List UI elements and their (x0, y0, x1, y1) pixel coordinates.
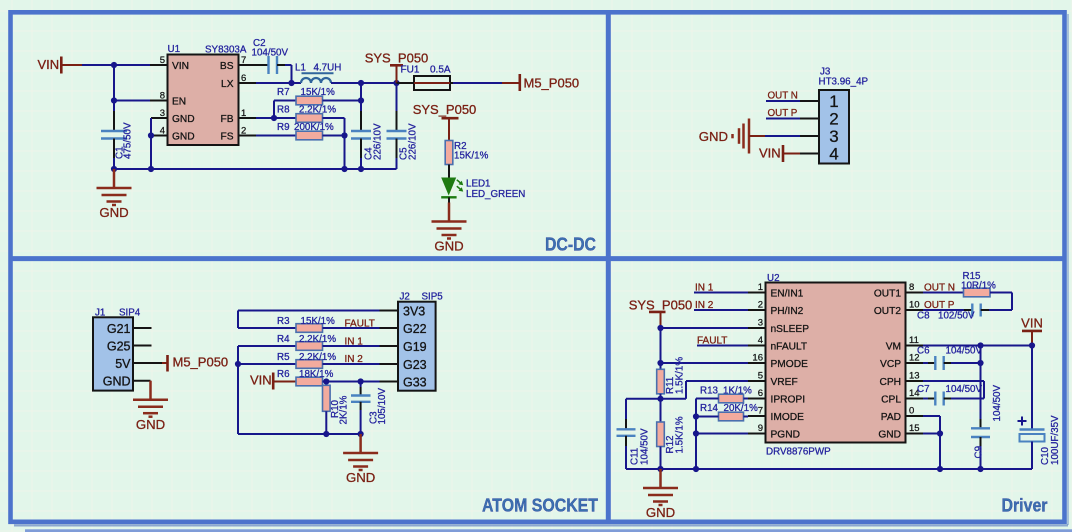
svg-text:GND: GND (172, 132, 195, 143)
svg-text:4: 4 (160, 126, 165, 137)
svg-text:15K/1%: 15K/1% (301, 316, 336, 327)
svg-text:9: 9 (758, 423, 763, 434)
svg-text:VIN: VIN (172, 61, 189, 72)
svg-text:IN 1: IN 1 (695, 283, 714, 294)
svg-text:1: 1 (241, 108, 246, 119)
svg-text:104/50V: 104/50V (946, 346, 983, 357)
svg-text:VIN: VIN (38, 57, 60, 72)
svg-text:VM: VM (886, 342, 901, 353)
svg-text:SY8303A: SY8303A (205, 45, 247, 56)
svg-text:1: 1 (758, 282, 763, 293)
svg-text:2.2K/1%: 2.2K/1% (299, 352, 336, 363)
svg-text:FAULT: FAULT (697, 336, 727, 347)
svg-text:5V: 5V (115, 357, 131, 371)
svg-text:IMODE: IMODE (771, 412, 805, 423)
svg-text:OUT P: OUT P (768, 108, 798, 119)
svg-text:1.5K/1%: 1.5K/1% (675, 416, 686, 453)
svg-text:15K/1%: 15K/1% (301, 87, 336, 98)
svg-text:C8: C8 (917, 311, 930, 322)
svg-text:226/10V: 226/10V (408, 123, 419, 160)
svg-text:IPROPI: IPROPI (771, 395, 806, 406)
svg-text:FB: FB (220, 114, 233, 125)
svg-text:R9: R9 (277, 122, 290, 133)
svg-text:2: 2 (829, 110, 838, 129)
svg-text:SYS_P050: SYS_P050 (413, 102, 477, 117)
svg-text:R14: R14 (700, 403, 719, 414)
svg-text:G25: G25 (107, 339, 131, 353)
svg-text:M5_P050: M5_P050 (173, 355, 229, 370)
svg-text:6: 6 (241, 73, 246, 84)
svg-text:G22: G22 (403, 322, 427, 336)
svg-text:1.5K/1%: 1.5K/1% (675, 357, 686, 394)
svg-text:11: 11 (909, 335, 919, 346)
svg-text:10R/1%: 10R/1% (961, 280, 996, 291)
svg-text:OUT N: OUT N (924, 283, 955, 294)
svg-text:16: 16 (752, 353, 763, 364)
svg-text:J1: J1 (95, 308, 105, 319)
svg-text:EN: EN (172, 97, 186, 108)
svg-text:4: 4 (829, 145, 838, 164)
svg-text:R7: R7 (277, 87, 290, 98)
svg-text:2: 2 (241, 126, 246, 137)
svg-text:C6: C6 (917, 346, 930, 357)
svg-text:nFAULT: nFAULT (771, 342, 808, 353)
svg-text:18K/1%: 18K/1% (299, 369, 334, 380)
svg-text:Driver: Driver (1002, 496, 1048, 516)
svg-text:105/10V: 105/10V (377, 388, 388, 425)
svg-text:FS: FS (220, 132, 233, 143)
svg-text:G21: G21 (107, 322, 131, 336)
svg-text:EN/IN1: EN/IN1 (771, 289, 804, 300)
svg-text:10: 10 (909, 300, 920, 311)
svg-text:VIN: VIN (759, 146, 781, 161)
svg-text:3V3: 3V3 (403, 304, 425, 318)
svg-text:15: 15 (909, 423, 920, 434)
svg-text:13: 13 (909, 371, 920, 382)
svg-text:15K/1%: 15K/1% (454, 150, 489, 161)
svg-text:OUT P: OUT P (924, 300, 955, 311)
svg-text:2.2K/1%: 2.2K/1% (299, 334, 336, 345)
svg-text:CPL: CPL (881, 395, 901, 406)
svg-text:PAD: PAD (881, 412, 901, 423)
svg-text:0: 0 (909, 406, 914, 417)
svg-text:0.5A: 0.5A (430, 65, 451, 76)
svg-text:100UF/35V: 100UF/35V (1050, 415, 1061, 465)
svg-text:SIP4: SIP4 (119, 308, 141, 319)
svg-text:R4: R4 (277, 334, 290, 345)
svg-text:IN 2: IN 2 (345, 354, 364, 365)
svg-text:U1: U1 (168, 44, 181, 55)
svg-text:102/50V: 102/50V (938, 311, 975, 322)
svg-text:FAULT: FAULT (345, 318, 375, 329)
svg-text:R8: R8 (277, 105, 290, 116)
svg-text:C7: C7 (917, 384, 930, 395)
svg-text:R13: R13 (700, 385, 719, 396)
svg-text:R3: R3 (277, 316, 290, 327)
svg-text:SYS_P050: SYS_P050 (365, 51, 429, 66)
svg-text:VCP: VCP (880, 359, 901, 370)
svg-text:R5: R5 (277, 352, 290, 363)
svg-text:R6: R6 (277, 369, 290, 380)
svg-text:DRV8876PWP: DRV8876PWP (766, 447, 831, 458)
svg-text:OUT1: OUT1 (874, 289, 902, 300)
svg-text:226/10V: 226/10V (373, 123, 384, 160)
svg-text:GND: GND (172, 114, 195, 125)
svg-text:G23: G23 (403, 358, 427, 372)
svg-text:J2: J2 (400, 292, 410, 303)
svg-text:7: 7 (241, 55, 246, 66)
svg-text:8: 8 (160, 91, 165, 102)
svg-text:G19: G19 (403, 340, 427, 354)
svg-text:3: 3 (758, 318, 763, 329)
svg-text:GND: GND (699, 129, 728, 144)
svg-text:GND: GND (878, 430, 901, 441)
svg-text:U2: U2 (767, 273, 780, 284)
svg-text:3: 3 (160, 108, 165, 119)
svg-text:M5_P050: M5_P050 (524, 76, 580, 91)
svg-text:2K/1%: 2K/1% (339, 395, 350, 424)
svg-text:BS: BS (220, 61, 234, 72)
svg-text:OUT2: OUT2 (874, 306, 902, 317)
svg-text:5: 5 (758, 371, 763, 382)
svg-text:7: 7 (758, 406, 763, 417)
svg-text:3: 3 (829, 127, 838, 146)
svg-text:GND: GND (103, 375, 131, 389)
svg-text:5: 5 (160, 55, 165, 66)
svg-text:PGND: PGND (771, 430, 800, 441)
svg-text:FU1: FU1 (401, 65, 420, 76)
svg-text:VIN: VIN (1021, 316, 1043, 331)
svg-text:200K/1%: 200K/1% (294, 122, 334, 133)
svg-text:1: 1 (829, 92, 838, 111)
svg-text:104/50V: 104/50V (946, 384, 983, 395)
svg-text:nSLEEP: nSLEEP (771, 324, 810, 335)
svg-text:2: 2 (758, 300, 763, 311)
svg-text:2.2K/1%: 2.2K/1% (299, 105, 336, 116)
svg-text:4.7UH: 4.7UH (314, 63, 342, 74)
svg-text:IN 2: IN 2 (695, 300, 714, 311)
svg-text:VREF: VREF (771, 377, 798, 388)
svg-text:ATOM SOCKET: ATOM SOCKET (482, 496, 598, 516)
svg-text:CPH: CPH (879, 377, 901, 388)
svg-text:4: 4 (758, 335, 763, 346)
svg-text:LED_GREEN: LED_GREEN (466, 189, 525, 200)
svg-text:475/50V: 475/50V (123, 122, 134, 159)
svg-text:DC-DC: DC-DC (545, 235, 596, 255)
svg-text:104/50V: 104/50V (640, 428, 651, 465)
svg-text:HT3.96_4P: HT3.96_4P (819, 77, 869, 88)
svg-text:LX: LX (221, 79, 234, 90)
svg-text:104/50V: 104/50V (252, 48, 289, 59)
svg-text:G33: G33 (403, 375, 427, 389)
svg-text:PH/IN2: PH/IN2 (771, 306, 804, 317)
svg-text:PMODE: PMODE (771, 359, 809, 370)
svg-text:8: 8 (909, 282, 914, 293)
svg-text:SYS_P050: SYS_P050 (629, 298, 693, 313)
svg-text:6: 6 (758, 388, 763, 399)
svg-text:104/50V: 104/50V (992, 385, 1003, 422)
svg-text:OUT N: OUT N (768, 91, 798, 102)
svg-text:VIN: VIN (250, 373, 272, 388)
svg-text:L1: L1 (295, 63, 306, 74)
svg-text:IN 1: IN 1 (345, 336, 364, 347)
svg-text:C9: C9 (974, 446, 985, 459)
svg-text:SIP5: SIP5 (422, 292, 444, 303)
